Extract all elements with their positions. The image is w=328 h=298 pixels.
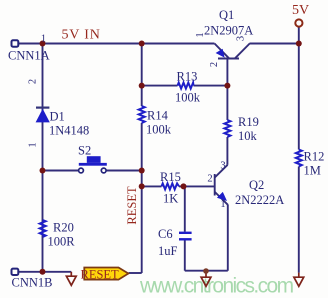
- svg-text:100k: 100k: [175, 91, 201, 105]
- svg-text:2: 2: [28, 79, 39, 84]
- svg-text:R19: R19: [238, 115, 259, 129]
- svg-text:5V IN: 5V IN: [62, 27, 101, 42]
- svg-text:1K: 1K: [163, 192, 178, 206]
- svg-text:100R: 100R: [48, 235, 76, 249]
- svg-text:www.cntronics.com: www.cntronics.com: [139, 274, 294, 297]
- svg-text:10k: 10k: [238, 129, 258, 143]
- svg-text:RESET: RESET: [125, 186, 139, 225]
- svg-text:S2: S2: [78, 144, 91, 158]
- svg-text:1uF: 1uF: [158, 244, 178, 258]
- svg-text:R14: R14: [147, 109, 169, 123]
- svg-text:1N4148: 1N4148: [49, 124, 89, 138]
- svg-text:R20: R20: [53, 221, 74, 235]
- svg-text:1: 1: [28, 142, 39, 147]
- svg-text:2N2907A: 2N2907A: [204, 24, 253, 38]
- svg-text:1: 1: [220, 199, 225, 210]
- svg-text:2N2222A: 2N2222A: [235, 193, 284, 207]
- svg-text:1M: 1M: [304, 164, 321, 178]
- svg-text:R12: R12: [304, 150, 325, 164]
- svg-text:1: 1: [41, 34, 46, 45]
- svg-text:Q1: Q1: [219, 8, 234, 22]
- svg-text:3: 3: [236, 36, 247, 41]
- svg-text:RESET: RESET: [81, 267, 120, 281]
- svg-text:R15: R15: [160, 170, 181, 184]
- svg-text:3: 3: [220, 161, 225, 172]
- svg-text:CNN1B: CNN1B: [12, 276, 53, 290]
- svg-text:1: 1: [195, 32, 206, 37]
- svg-text:2: 2: [209, 62, 220, 67]
- svg-text:2: 2: [207, 174, 212, 185]
- svg-text:Q2: Q2: [249, 178, 264, 192]
- svg-text:CNN1A: CNN1A: [8, 49, 50, 63]
- svg-text:D1: D1: [50, 110, 65, 124]
- svg-text:C6: C6: [158, 227, 173, 241]
- svg-text:R13: R13: [177, 70, 198, 84]
- svg-text:5V: 5V: [292, 3, 309, 18]
- svg-text:100k: 100k: [146, 123, 172, 137]
